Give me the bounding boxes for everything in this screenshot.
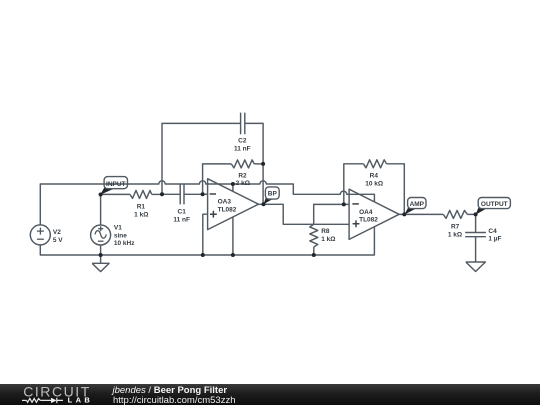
svg-text:INPUT: INPUT <box>106 181 126 188</box>
svg-text:2 kΩ: 2 kΩ <box>236 180 250 187</box>
svg-text:OUTPUT: OUTPUT <box>481 201 508 208</box>
svg-text:LAB: LAB <box>68 396 94 405</box>
svg-text:V2: V2 <box>53 229 61 236</box>
svg-text:OA4: OA4 <box>359 209 373 216</box>
svg-text:sine: sine <box>114 232 127 239</box>
svg-text:R4: R4 <box>370 173 379 180</box>
svg-text:OA3: OA3 <box>218 199 232 206</box>
svg-text:V1: V1 <box>114 225 122 232</box>
svg-text:5 V: 5 V <box>53 237 63 244</box>
svg-text:1 kΩ: 1 kΩ <box>448 231 462 238</box>
svg-text:11 nF: 11 nF <box>173 217 190 224</box>
svg-text:AMP: AMP <box>410 201 425 208</box>
svg-text:11 nF: 11 nF <box>234 145 251 152</box>
svg-text:1 µF: 1 µF <box>488 236 501 243</box>
svg-text:R2: R2 <box>238 173 247 180</box>
svg-text:10 kΩ: 10 kΩ <box>365 181 383 188</box>
svg-text:R7: R7 <box>451 223 460 230</box>
svg-text:1 kΩ: 1 kΩ <box>321 236 335 243</box>
svg-text:10 kHz: 10 kHz <box>114 240 135 247</box>
svg-text:TL082: TL082 <box>218 206 237 213</box>
svg-text:R1: R1 <box>137 203 146 210</box>
svg-text:C4: C4 <box>488 228 497 235</box>
svg-text:R8: R8 <box>321 228 330 235</box>
svg-text:C1: C1 <box>178 209 187 216</box>
svg-text:C2: C2 <box>238 138 247 145</box>
svg-text:TL082: TL082 <box>359 216 378 223</box>
svg-text:BP: BP <box>268 191 278 198</box>
svg-text:1 kΩ: 1 kΩ <box>134 211 148 218</box>
